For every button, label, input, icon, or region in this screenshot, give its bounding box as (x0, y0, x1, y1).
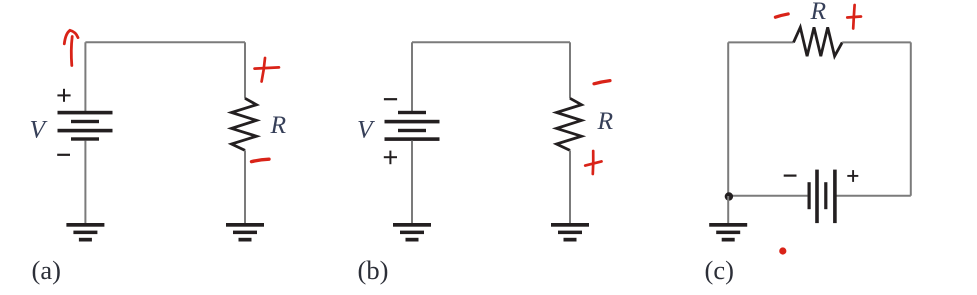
svg-text:(b): (b) (358, 255, 389, 285)
resistor R (a) (232, 98, 257, 150)
label + (battery a positive) (57, 89, 70, 102)
wire: resistor top lead a (244, 42, 246, 98)
resistor R (b) (557, 98, 582, 150)
wire: top wire of circuit a (85, 41, 245, 43)
ground (c) (709, 223, 747, 242)
resistor R (c) (794, 27, 843, 56)
svg-text:V: V (357, 115, 376, 144)
label + (battery b positive) (384, 151, 397, 165)
svg-text:R: R (270, 110, 287, 139)
node: junction dot c (725, 192, 733, 200)
wire: resistor bottom lead a (244, 150, 246, 223)
wire: bottom wire left segment c (728, 195, 807, 197)
annotation: red plus at resistor bottom (b) (585, 151, 601, 174)
battery V (source b) (385, 111, 440, 141)
annotation: red dot (c) (779, 247, 786, 254)
wire: bottom wire right segment c (837, 195, 911, 197)
svg-text:R: R (597, 106, 614, 135)
ground (b right) (551, 223, 589, 242)
label - (battery b negative) (384, 98, 397, 100)
svg-text:V: V (30, 115, 49, 144)
wire: battery top lead b (411, 42, 413, 112)
svg-text:(a): (a) (32, 255, 61, 285)
annotation: red minus left of R (c) (775, 14, 788, 17)
wire: resistor bottom lead b (569, 150, 571, 223)
label - (battery c negative) (784, 175, 797, 177)
annotation: red minus at resistor bottom (a) (252, 159, 270, 161)
wire: battery bottom lead a (84, 141, 86, 224)
annotation: red current arrow (a) (64, 30, 78, 65)
wire: right vertical wire c (910, 42, 912, 195)
wire: left vertical wire c (727, 42, 729, 195)
battery (source c) (808, 170, 837, 224)
wire: battery top lead a (84, 42, 86, 111)
battery V (source a) (58, 111, 113, 141)
label + (battery c positive) (847, 170, 858, 182)
label - (battery a negative) (57, 154, 70, 156)
wire: top wire right segment c (842, 41, 911, 43)
annotation: red plus right of R (c) (847, 5, 861, 29)
wire: resistor top lead b (569, 42, 571, 98)
wire: top wire of circuit b (412, 41, 570, 43)
wire: battery bottom lead b (411, 141, 413, 224)
wire: top wire left segment c (728, 41, 793, 43)
ground (a) (66, 223, 104, 242)
wire: ground lead c (727, 196, 729, 224)
annotation: red plus at resistor top (a) (255, 58, 280, 82)
annotation: red minus at resistor top (b) (594, 81, 610, 84)
ground (b left) (393, 223, 431, 242)
ground (a right) (226, 223, 264, 242)
svg-text:(c): (c) (705, 255, 734, 285)
svg-text:R: R (810, 0, 827, 25)
